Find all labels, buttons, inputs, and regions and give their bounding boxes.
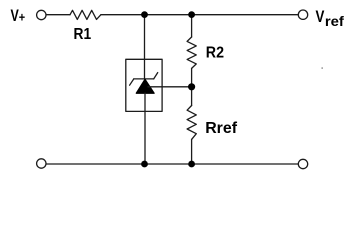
terminal bottom left — [37, 159, 46, 168]
wire — [144, 93, 146, 164]
node E — [188, 161, 195, 168]
wire — [191, 15, 193, 37]
wire — [191, 68, 193, 86]
wire — [101, 14, 145, 16]
svg-text:R2: R2 — [206, 44, 224, 61]
node C — [188, 83, 195, 90]
svg-text:ref: ref — [325, 14, 345, 29]
svg-text:V: V — [316, 8, 325, 26]
wire — [145, 163, 192, 165]
terminal bottom right — [298, 159, 307, 168]
wire — [46, 14, 70, 16]
resistor R1 — [70, 10, 101, 19]
terminal Vref — [298, 10, 307, 19]
node D — [141, 161, 148, 168]
label Vref — [316, 8, 345, 29]
wire — [191, 139, 193, 164]
wire — [191, 87, 193, 106]
zener diode box — [126, 59, 162, 111]
svg-text:R1: R1 — [74, 26, 92, 43]
terminal V+ — [37, 10, 46, 19]
wire — [145, 14, 192, 16]
node A — [141, 11, 148, 18]
resistor R2 — [187, 37, 196, 68]
node B — [188, 11, 195, 18]
wire — [144, 15, 146, 79]
artifact speck — [321, 67, 323, 69]
svg-text:V: V — [11, 7, 19, 25]
svg-text:+: + — [19, 9, 26, 24]
wire — [46, 163, 144, 165]
zener diode — [130, 73, 158, 94]
label V+ — [11, 7, 26, 25]
resistor Rref — [187, 106, 196, 140]
wire — [148, 86, 192, 88]
svg-text:Rref: Rref — [205, 120, 237, 137]
wire — [192, 14, 299, 16]
wire — [192, 163, 299, 165]
